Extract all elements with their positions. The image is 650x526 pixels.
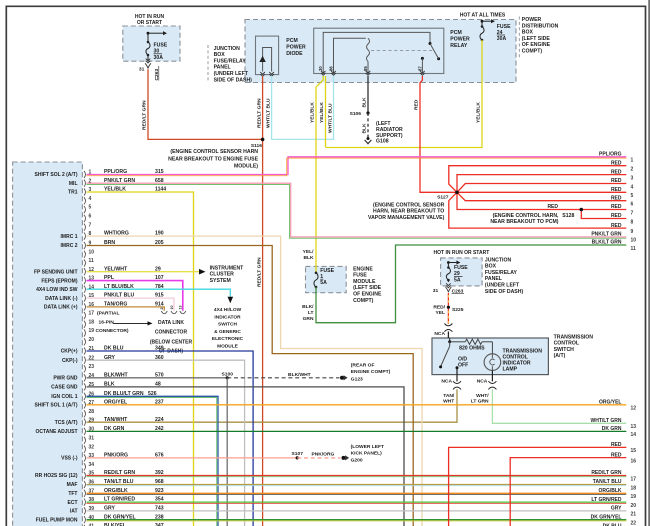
svg-text:19: 19 (89, 328, 95, 334)
svg-text:820 OHMS: 820 OHMS (459, 346, 485, 352)
svg-text:TAN/: TAN/ (443, 393, 455, 399)
svg-text:COMPT): COMPT) (522, 49, 543, 55)
svg-text:CONTROL: CONTROL (554, 341, 579, 347)
svg-text:HOT AT ALL TIMES: HOT AT ALL TIMES (460, 12, 506, 18)
wire RED/LT GRN fuse30 to S116 (148, 69, 263, 139)
wire RED bottom vertical to right pin16 (510, 458, 626, 526)
splice S100 (226, 376, 229, 379)
wire RED S127 to pin 5 (457, 191, 626, 193)
svg-text:RED/: RED/ (433, 305, 445, 311)
svg-text:(LOWER LEFT: (LOWER LEFT (351, 444, 384, 450)
node PCM pin 38 (84, 499, 86, 506)
svg-text:POWER: POWER (450, 37, 470, 43)
junction dot S128 (580, 208, 584, 212)
wire GRY pin39 to right pin21 (87, 510, 627, 512)
transmission control switch box (432, 338, 548, 375)
svg-text:S100: S100 (222, 371, 234, 377)
junction box fuse 30 (dashed) (123, 26, 180, 61)
node PCM pin 34 (84, 463, 86, 470)
svg-text:FEPS (EPROM): FEPS (EPROM) (41, 278, 77, 284)
svg-text:(LEFT SIDE: (LEFT SIDE (522, 36, 551, 42)
svg-text:KICK PANEL): KICK PANEL) (351, 451, 383, 457)
wire BLK pin25 trunk (87, 387, 405, 526)
wire RED/LT GRN diode to S116 (262, 76, 264, 139)
fuse F29 5A (447, 263, 449, 268)
svg-text:VAPOR MANAGEMENT VALVE): VAPOR MANAGEMENT VALVE) (368, 215, 445, 221)
wire BRN pin9 trunk (87, 246, 414, 526)
svg-text:JUNCTION: JUNCTION (485, 257, 512, 263)
svg-text:RED: RED (611, 187, 622, 193)
svg-text:30: 30 (318, 66, 323, 71)
node PCM pin 22 (84, 357, 86, 364)
svg-text:GRN: GRN (303, 316, 314, 322)
svg-text:85: 85 (363, 66, 368, 71)
svg-text:17: 17 (89, 311, 95, 317)
svg-text:BLK/: BLK/ (302, 304, 314, 310)
svg-text:BLK: BLK (361, 97, 367, 108)
svg-text:RED: RED (547, 204, 558, 210)
svg-text:BOX: BOX (214, 52, 226, 58)
wire DK BLU/LT GRN pin26 trunk (87, 396, 219, 526)
wire TAN/LT BLU pin36 to right pin18 (87, 484, 627, 486)
node PCM pin 35 (84, 472, 86, 479)
wire RED S128 to pin 8 (581, 210, 626, 219)
svg-text:VSS (-): VSS (-) (61, 456, 78, 462)
svg-text:20: 20 (89, 337, 95, 343)
svg-text:PANEL: PANEL (485, 276, 502, 282)
svg-text:SIDE OF DASH): SIDE OF DASH) (214, 77, 253, 83)
connector C263 (fuse 29) (446, 287, 449, 292)
svg-text:CONNECTOR: CONNECTOR (155, 329, 188, 335)
svg-text:YEL/BLK: YEL/BLK (475, 102, 481, 123)
svg-text:30A: 30A (497, 36, 507, 42)
svg-text:CONNECTOR): CONNECTOR) (96, 328, 129, 334)
svg-text:31: 31 (433, 288, 439, 294)
svg-text:31: 31 (139, 67, 145, 73)
svg-text:31: 31 (89, 435, 95, 441)
node PCM pin 28 (84, 410, 86, 417)
svg-text:POWER: POWER (286, 45, 306, 51)
svg-text:INSTRUMENT: INSTRUMENT (210, 265, 245, 271)
svg-text:NCA: NCA (477, 378, 488, 384)
fuse 30 feed arrow (147, 32, 150, 35)
node PCM pin 13 (84, 277, 86, 284)
node PCM pin 30 (84, 428, 86, 435)
svg-text:HARN, NEAR BREAKOUT TO: HARN, NEAR BREAKOUT TO (373, 209, 444, 215)
svg-text:BLK: BLK (361, 123, 367, 134)
svg-text:MODULE): MODULE) (234, 164, 258, 170)
wire RED S127 to pin 7 via S128 (457, 192, 626, 209)
svg-text:32: 32 (89, 444, 95, 450)
svg-text:28: 28 (89, 409, 95, 415)
node PCM pin 12 (84, 268, 86, 275)
wire PNK/LT GRN pin2 to right pin10 (87, 183, 627, 237)
svg-text:20: 20 (631, 503, 637, 509)
wire PPL pin13 to DLC (87, 281, 183, 311)
svg-text:4: 4 (631, 184, 634, 190)
splice S107 (296, 456, 299, 459)
PCM power diode box U1 (256, 36, 279, 75)
node PCM pin 36 (84, 481, 86, 488)
power distribution box (dashed) (245, 20, 516, 83)
svg-text:JUNCTION: JUNCTION (214, 46, 241, 52)
wire RED/LT GRN pin35 to right pin17 (87, 475, 627, 477)
wire BLK/WHT S100 to G123 (227, 377, 339, 379)
svg-text:19: 19 (631, 494, 637, 500)
PCM power diode internals (263, 48, 272, 72)
wire RED S127 to pin 4 (457, 184, 626, 193)
svg-text:SHIFT SOL 1 (A/T): SHIFT SOL 1 (A/T) (35, 403, 78, 409)
svg-text:& GENERIC: & GENERIC (214, 329, 241, 335)
fuse F24 30A (481, 21, 483, 26)
svg-text:FUSE: FUSE (454, 265, 468, 271)
inline connector above TCS (444, 324, 452, 326)
node PCM pin 33 (84, 454, 86, 461)
node PCM pin 27 (84, 401, 86, 408)
svg-text:ECT: ECT (68, 500, 78, 506)
node PCM pin 17 (84, 312, 86, 319)
svg-text:PWR GND: PWR GND (53, 376, 78, 382)
svg-text:15: 15 (631, 448, 637, 454)
svg-text:RED/LT GRN: RED/LT GRN (256, 257, 262, 287)
svg-text:O/D: O/D (458, 356, 467, 362)
wire YEL/WHT pin12 to instrument cluster (87, 271, 200, 273)
transmission control indicator lamp (491, 342, 493, 354)
node PCM pin 8 (84, 233, 86, 240)
svg-text:14: 14 (631, 432, 637, 438)
fuse 29 feed arrow (447, 261, 450, 264)
svg-text:CLUSTER: CLUSTER (210, 272, 235, 278)
node PCM pin 5 (84, 206, 86, 213)
wire RED bottom vertical to right pin15 (449, 447, 627, 526)
svg-text:3: 3 (631, 175, 634, 181)
wire WHT/LT GRN lamp to pin 13 (right) (492, 389, 626, 423)
node PCM pin 21 (84, 347, 86, 354)
svg-text:IAT: IAT (70, 509, 78, 515)
svg-text:RED: RED (611, 178, 622, 184)
svg-text:CASE GND: CASE GND (51, 385, 78, 391)
svg-text:17: 17 (631, 476, 637, 482)
svg-text:YEL/: YEL/ (303, 249, 315, 255)
svg-text:2: 2 (160, 308, 164, 310)
svg-text:(BELOW CENTER: (BELOW CENTER (150, 340, 193, 346)
svg-text:BOX: BOX (522, 30, 534, 36)
svg-text:WHT: WHT (443, 398, 454, 404)
svg-text:DIODE: DIODE (286, 51, 303, 57)
svg-text:PCM: PCM (450, 30, 461, 36)
svg-text:RED: RED (611, 169, 622, 175)
svg-text:(UNDER LEFT: (UNDER LEFT (214, 71, 249, 77)
svg-text:G123: G123 (351, 376, 363, 382)
ground G108 (367, 137, 370, 140)
svg-text:FP SENDING UNIT: FP SENDING UNIT (34, 269, 78, 275)
svg-text:(A/T): (A/T) (554, 353, 566, 359)
node PCM pin 10 (84, 251, 86, 258)
node PCM pin 37 (84, 490, 86, 497)
node PCM pin 14 (84, 286, 86, 293)
svg-text:29: 29 (89, 417, 95, 423)
svg-text:NEAR BREAKOUT TO PCM): NEAR BREAKOUT TO PCM) (490, 219, 558, 225)
junction dot S127 (455, 191, 459, 195)
wire S100 branch down (226, 378, 228, 526)
svg-text:SWITCH: SWITCH (554, 347, 575, 353)
svg-text:RR HO2S SIG (12): RR HO2S SIG (12) (35, 473, 78, 479)
svg-text:PNK/ORG: PNK/ORG (312, 452, 335, 458)
transmission control switch internals (449, 338, 451, 342)
svg-text:YEL/BLK: YEL/BLK (319, 102, 325, 123)
svg-text:RED: RED (611, 204, 622, 210)
PCM connector box (left, dashed) (13, 162, 83, 526)
svg-text:SYSTEM: SYSTEM (210, 278, 231, 284)
svg-text:MAF: MAF (67, 482, 78, 488)
wire RED S127 to pin 9 (449, 192, 627, 228)
svg-text:RED/LT GRN: RED/LT GRN (256, 98, 262, 128)
svg-text:PANEL: PANEL (214, 65, 231, 71)
svg-text:10: 10 (631, 238, 637, 244)
svg-text:OF ENGINE: OF ENGINE (353, 292, 382, 298)
svg-text:(UNDER LEFT: (UNDER LEFT (485, 283, 520, 289)
svg-text:RED: RED (611, 213, 622, 219)
svg-text:BLK/LT GRN: BLK/LT GRN (592, 240, 622, 246)
svg-text:18: 18 (631, 485, 637, 491)
svg-text:INDICATOR: INDICATOR (214, 314, 241, 320)
ground G200 (342, 456, 346, 460)
svg-text:DATA LINK (+): DATA LINK (+) (44, 305, 78, 311)
svg-text:CKP(-): CKP(-) (62, 358, 78, 364)
wire RED S127 to pin 6 (457, 192, 626, 200)
svg-text:DISTRIBUTION: DISTRIBUTION (522, 23, 559, 29)
node PCM pin 39 (84, 507, 86, 514)
wire YEL/BLK fuse24 down to relay coil feed (326, 40, 482, 148)
node PCM pin 11 (84, 259, 86, 266)
svg-text:WHT/LT BLU: WHT/LT BLU (327, 103, 333, 133)
svg-text:CKP(+): CKP(+) (61, 349, 78, 355)
wire YEL/BLK pin3 trunk down (87, 192, 194, 526)
svg-text:10: 10 (89, 249, 95, 255)
wire ORG/YEL pin27 to right pin12 (87, 404, 627, 406)
svg-text:S106: S106 (350, 111, 362, 117)
junction box label (fuse 30) (207, 45, 209, 81)
wire BLK/LT GRN fuse1 to pin 11 (316, 245, 626, 323)
wire PNK/LT BLU pin15 to DLC (87, 298, 175, 311)
wire WHT/ORG pin8 trunk (87, 236, 423, 526)
junction box fuse 29 (dashed) (441, 258, 483, 286)
svg-text:TRANSMISSION: TRANSMISSION (554, 334, 594, 340)
svg-text:RED: RED (413, 99, 419, 110)
svg-text:OR START: OR START (137, 20, 162, 26)
node PCM pin 6 (84, 215, 86, 222)
node PCM pin 26 (84, 393, 86, 400)
PCM power relay box K1 (314, 28, 444, 73)
fuse 29 exit arrow (446, 283, 451, 285)
svg-text:5: 5 (89, 205, 92, 211)
svg-text:(ENGINE CONTROL SENSOR HARN: (ENGINE CONTROL SENSOR HARN (170, 149, 258, 155)
svg-text:HOT IN RUN: HOT IN RUN (135, 14, 165, 20)
splice S225 (447, 306, 450, 309)
power distribution box label (518, 17, 520, 60)
wire LT BLU/BLK pin14 to 4x4 module (87, 289, 231, 297)
svg-text:IGN COIL 1: IGN COIL 1 (51, 394, 78, 400)
svg-text:13: 13 (631, 424, 637, 430)
svg-text:30A: 30A (154, 55, 164, 61)
svg-text:LT GRN: LT GRN (471, 398, 489, 404)
node PCM pin 41 (84, 525, 86, 526)
svg-text:OFF: OFF (458, 362, 468, 368)
svg-text:6: 6 (631, 202, 634, 208)
svg-text:2: 2 (631, 167, 634, 173)
svg-text:FUSE/RELAY: FUSE/RELAY (214, 58, 247, 64)
svg-text:G200: G200 (351, 457, 363, 463)
svg-text:SWITCH: SWITCH (218, 322, 237, 328)
svg-text:FUSE: FUSE (353, 273, 367, 279)
wire DK BLU pin21 trunk (87, 351, 254, 526)
svg-text:4X4 HI/LOW: 4X4 HI/LOW (214, 307, 242, 313)
svg-text:5A: 5A (320, 280, 327, 286)
svg-text:87: 87 (417, 66, 422, 71)
node PCM pin 2 (84, 180, 86, 187)
svg-text:TFT: TFT (68, 491, 77, 497)
svg-text:7: 7 (89, 222, 92, 228)
svg-text:ENGINE: ENGINE (353, 266, 373, 272)
svg-text:TCS (A/T): TCS (A/T) (55, 420, 78, 426)
svg-text:86: 86 (329, 66, 334, 71)
svg-text:G108: G108 (376, 139, 389, 145)
svg-text:RELAY: RELAY (450, 43, 468, 49)
node PCM pin 19 (84, 329, 86, 336)
wire BLK S106 to G108 (367, 113, 369, 137)
svg-text:4X4 LOW IND SW: 4X4 LOW IND SW (36, 287, 78, 293)
node PCM pin 24 (84, 374, 86, 381)
svg-text:FUSE: FUSE (154, 42, 168, 48)
svg-text:SHIFT SOL 2 (A/T): SHIFT SOL 2 (A/T) (35, 172, 78, 178)
svg-text:NEAR BREAKOUT TO ENGINE FUSE: NEAR BREAKOUT TO ENGINE FUSE (168, 157, 258, 163)
svg-text:NCA: NCA (434, 331, 445, 337)
wire BLK/WHT pin24 to S100 (87, 377, 228, 379)
svg-text:(ENGINE CONTROL SENSOR: (ENGINE CONTROL SENSOR (373, 202, 445, 208)
node PCM pin 18 (84, 321, 86, 328)
svg-text:S128: S128 (562, 213, 574, 219)
wire RED/LT GRN trunk S116 down (262, 139, 264, 526)
svg-text:NCA: NCA (441, 378, 452, 384)
svg-text:MODULE: MODULE (217, 343, 239, 349)
wire PPL/ORG pin1 to right pin1 (87, 157, 627, 175)
wire YEL/BLK relay pin30 to engine fuse module (316, 76, 323, 273)
svg-text:16-PIN: 16-PIN (99, 319, 115, 325)
node PCM pin 40 (84, 516, 86, 523)
svg-text:OCTANE ADJUST: OCTANE ADJUST (36, 429, 78, 435)
node PCM pin 29 (84, 419, 86, 426)
svg-text:FUSE/RELAY: FUSE/RELAY (485, 270, 518, 276)
svg-text:YEL: YEL (435, 310, 445, 316)
svg-text:MODULE: MODULE (353, 279, 376, 285)
node PCM pin 4 (84, 197, 86, 204)
svg-text:16: 16 (631, 458, 637, 464)
svg-text:DATA LINK (-): DATA LINK (-) (45, 296, 78, 302)
svg-text:RED: RED (611, 195, 622, 201)
node PCM pin 7 (84, 224, 86, 231)
svg-text:ELECTRONIC: ELECTRONIC (212, 336, 244, 342)
wire BLK relay pin85 to S106 (367, 76, 369, 113)
svg-text:(REAR OF: (REAR OF (351, 362, 375, 368)
svg-text:WHT/: WHT/ (476, 393, 489, 399)
svg-text:18: 18 (89, 319, 95, 325)
svg-text:YEL/BLK: YEL/BLK (310, 102, 316, 123)
svg-text:RED: RED (611, 160, 622, 166)
wire TAN/ORG pin16 to DLC (87, 307, 165, 311)
svg-text:LAMP: LAMP (503, 366, 518, 372)
svg-text:5: 5 (631, 193, 634, 199)
svg-text:9: 9 (631, 229, 634, 235)
ground G123 (340, 376, 344, 380)
svg-text:224: 224 (155, 417, 164, 423)
svg-text:(LEFT SIDE: (LEFT SIDE (353, 285, 382, 291)
svg-text:(PARTIAL: (PARTIAL (97, 311, 119, 317)
node PCM pin 3 (84, 188, 86, 195)
wire RED/YEL C263 to S225 (447, 293, 449, 324)
svg-text:13: 13 (179, 306, 183, 310)
svg-text:10: 10 (170, 306, 174, 310)
wire DK GRN pin30 to right pin14 (87, 430, 627, 432)
fuse 30 exit arrow (146, 59, 151, 61)
PCM power relay internals (323, 32, 430, 73)
junction dot S116 (261, 138, 265, 142)
svg-text:TAN/WHT: TAN/WHT (104, 417, 128, 423)
svg-text:12: 12 (631, 406, 637, 412)
svg-text:OF ENGINE: OF ENGINE (522, 42, 551, 48)
fuse 24 feed arrow (481, 20, 484, 23)
svg-text:(ENGINE CONTROL HARN,: (ENGINE CONTROL HARN, (493, 213, 559, 219)
fuse F30 30A (147, 33, 149, 42)
svg-text:IMRC 1: IMRC 1 (61, 234, 78, 240)
svg-text:COMPT): COMPT) (353, 298, 374, 304)
node PCM pin 9 (84, 242, 86, 249)
node PCM pin 1 (84, 171, 86, 178)
wire WHT/LT BLU diode to relay pin 86 (272, 76, 334, 139)
svg-text:22: 22 (631, 521, 637, 526)
svg-text:HOT IN RUN OR START: HOT IN RUN OR START (434, 250, 490, 256)
svg-text:LT: LT (308, 310, 314, 316)
svg-text:SIDE OF DASH): SIDE OF DASH) (485, 289, 524, 295)
node PCM pin 16 (84, 303, 86, 310)
data link connector pins (161, 311, 167, 314)
svg-text:5A: 5A (454, 277, 461, 283)
wire RED S127 to pin 2 (449, 166, 627, 193)
svg-text:S107: S107 (292, 451, 304, 457)
svg-text:23: 23 (89, 364, 95, 370)
svg-text:POWER: POWER (522, 17, 542, 23)
svg-text:DATA LINK: DATA LINK (158, 320, 184, 326)
connector C263 (fuse 30) (145, 63, 148, 68)
wire PNK/ORG S107 to G200 (297, 457, 340, 459)
svg-text:WHT/LT BLU: WHT/LT BLU (265, 98, 271, 128)
svg-text:PCM: PCM (286, 38, 297, 44)
svg-text:IMRC 2: IMRC 2 (61, 243, 78, 249)
wire ORG/BLK pin37 to right pin19 (87, 492, 627, 494)
svg-text:ENGINE COMPT): ENGINE COMPT) (351, 369, 391, 375)
svg-text:6: 6 (89, 214, 92, 220)
svg-text:21: 21 (631, 512, 637, 518)
svg-text:8: 8 (631, 219, 634, 225)
svg-text:BLK/WHT: BLK/WHT (288, 372, 311, 378)
splice S106 (366, 111, 369, 114)
svg-text:11: 11 (631, 246, 637, 252)
node PCM pin 23 (84, 365, 86, 372)
wire PNK/ORG pin33 to S107 (87, 457, 298, 459)
svg-text:4: 4 (89, 196, 92, 202)
fuse F1 5A (315, 272, 318, 275)
svg-text:WHT/LT GRN: WHT/LT GRN (590, 418, 621, 424)
svg-text:BOX: BOX (485, 264, 497, 270)
